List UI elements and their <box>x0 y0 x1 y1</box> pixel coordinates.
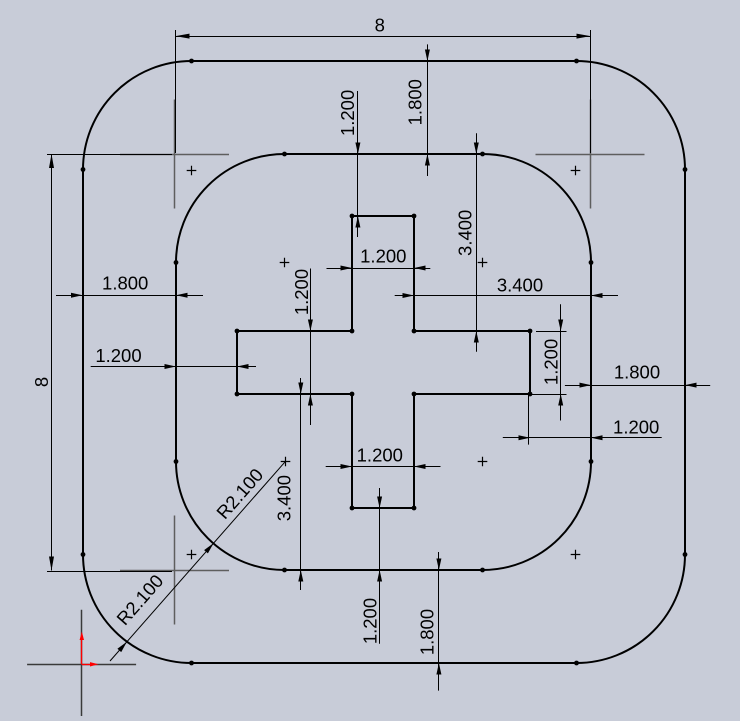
dimension 1.200 left: arrows <box>165 364 177 369</box>
outer arc center marks <box>187 166 197 176</box>
dimension 1.200 left: dimension line <box>91 366 256 368</box>
svg-text:1.800: 1.800 <box>416 609 437 655</box>
dimension 8 left: dimension line <box>51 154 53 571</box>
dimension 1.200 right-lower: dimension line <box>503 437 662 439</box>
dimension 1.200 right bar-height: dimension line <box>560 304 562 420</box>
dimension 1.200 left bar-height: dimension line <box>310 269 312 426</box>
dimension 3.400 top-right: arrows <box>474 143 479 155</box>
dimension 3.400 bottom-left: dimension line <box>300 378 302 590</box>
gray crosshair at inner top-left virtual sharp <box>120 100 229 209</box>
dimension 1.200 bottom: arrows <box>377 497 382 509</box>
svg-text:1.200: 1.200 <box>337 90 358 136</box>
dimension 3.400 right: arrows <box>403 293 415 298</box>
svg-text:1.200: 1.200 <box>613 416 659 437</box>
svg-text:1.200: 1.200 <box>360 245 406 266</box>
dimension 8 top: arrows <box>176 34 190 39</box>
svg-text:3.400: 3.400 <box>497 275 543 296</box>
R2.100 inner arc arrow <box>204 543 214 553</box>
R2.100 outer arc arrow <box>117 642 127 652</box>
dimension 1.200 cross-width top: arrows <box>341 266 353 271</box>
dimension 1.200 right-lower: arrows <box>519 435 531 440</box>
dimension 1.200 top: dimension line <box>357 91 359 237</box>
svg-text:1.200: 1.200 <box>360 598 381 644</box>
outer profile tangent vertex dots <box>189 59 194 64</box>
cross vertex dots <box>235 329 240 334</box>
dimension 1.800 top-left: dimension line <box>56 295 203 297</box>
dimension 1.800 top-left: arrows <box>71 293 83 298</box>
dimension 1.800 bottom: dimension line <box>438 552 440 691</box>
dimension 1.200 cross-width top: dimension line <box>327 268 431 270</box>
gray crosshair at inner top-right virtual sharp <box>536 100 645 209</box>
R2.100 radial leader line <box>110 462 285 661</box>
svg-text:8: 8 <box>375 14 385 35</box>
inner profile tangent vertex dots <box>282 152 287 157</box>
svg-text:1.800: 1.800 <box>102 273 148 294</box>
dimension 3.400 top-right: dimension line <box>476 133 478 352</box>
inner arc center marks <box>280 258 290 268</box>
dimension 8 top: extension lines <box>175 30 177 153</box>
dimension 1.200 cross-width bottom: dimension line <box>326 466 441 468</box>
svg-text:1.200: 1.200 <box>95 345 141 366</box>
dimension 1.200 bottom: dimension line <box>379 488 381 644</box>
gray crosshair at inner bottom-left virtual sharp <box>120 516 229 625</box>
origin red X axis arrow <box>82 664 92 666</box>
dimension 3.400 bottom-left: arrows <box>298 383 303 395</box>
inner bottom-left arc center mark <box>281 457 291 467</box>
svg-text:3.400: 3.400 <box>274 475 295 521</box>
dimension 1.200 top: arrows <box>355 143 360 155</box>
dark crosshair at sketch origin <box>27 610 136 716</box>
svg-text:1.800: 1.800 <box>614 361 660 382</box>
outer rounded-square profile <box>83 61 685 663</box>
dimension 8 left: extension lines <box>47 154 172 156</box>
dimension 1.800 bottom: arrows <box>436 559 441 571</box>
dimension 1.200 cross-width bottom: arrows <box>341 464 353 469</box>
dimension 1.200 right-lower: extension line <box>528 394 530 445</box>
dimension 1.800 top: dimension line <box>427 44 429 176</box>
dimension 8 top: dimension line <box>176 36 591 38</box>
cross cutout profile <box>237 216 530 508</box>
dimension 1.200 left bar-height: arrows <box>308 320 313 332</box>
dimension 8 left: arrows <box>49 154 54 168</box>
svg-text:8: 8 <box>31 377 52 387</box>
dimension 1.200 right bar-height: arrows <box>558 320 563 332</box>
svg-text:1.200: 1.200 <box>291 269 312 315</box>
svg-text:1.200: 1.200 <box>357 445 403 466</box>
dimension 1.200 right bar-height: extension lines <box>536 331 567 333</box>
inner rounded-square profile <box>176 154 591 570</box>
svg-text:1.200: 1.200 <box>541 339 562 385</box>
svg-text:3.400: 3.400 <box>455 210 476 256</box>
svg-text:1.800: 1.800 <box>405 79 426 125</box>
dimension 1.800 right: arrows <box>580 383 592 388</box>
dimension 1.800 right: dimension line <box>565 385 710 387</box>
dimension 3.400 right: dimension line <box>395 295 618 297</box>
dimension 1.800 top: arrows <box>425 50 430 62</box>
origin red Y axis arrow <box>81 640 83 664</box>
